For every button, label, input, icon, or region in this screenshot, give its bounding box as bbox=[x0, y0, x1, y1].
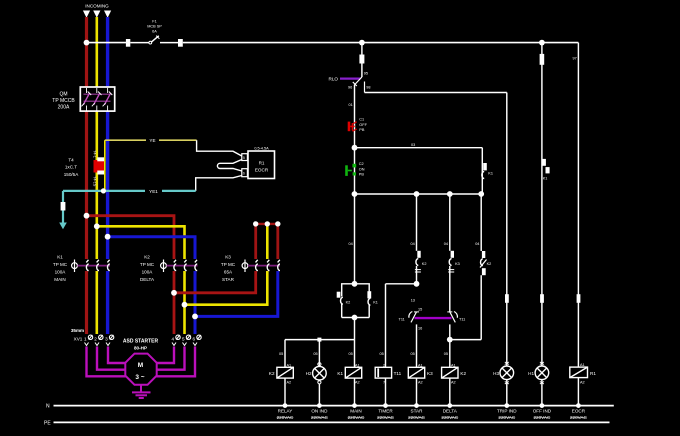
wire L3 blue lower bbox=[106, 271, 109, 334]
overload link RLO purple bbox=[340, 77, 361, 79]
node K2-K3 blue bbox=[192, 314, 198, 320]
node offind feed bbox=[539, 40, 545, 46]
wire aux to delta junction bbox=[450, 339, 481, 341]
node star 3 bbox=[275, 221, 280, 226]
wire relay-lamp feeder bus bbox=[285, 339, 355, 341]
node bus delta bbox=[447, 191, 453, 197]
svg-text:RLO: RLO bbox=[329, 77, 339, 82]
svg-text:6: 6 bbox=[243, 172, 245, 176]
svg-text:QM: QM bbox=[59, 92, 67, 98]
relay R1 EOCR box bbox=[242, 147, 275, 179]
svg-text:K2: K2 bbox=[269, 371, 275, 376]
wire L2 yellow mid bbox=[96, 111, 99, 259]
contactor K1 TP MC 100A MAIN label bbox=[53, 255, 68, 283]
wire CT secondary yellow vertical bbox=[104, 140, 106, 191]
svg-text:K3: K3 bbox=[455, 262, 460, 266]
svg-text:65A: 65A bbox=[224, 270, 233, 275]
wire down to fuse bbox=[361, 43, 363, 55]
wire red branch to K2 bbox=[87, 216, 175, 259]
svg-text:100A: 100A bbox=[142, 270, 154, 275]
contactor K1 pole 1 bbox=[86, 260, 88, 271]
contact K2 aux NC on aux column bbox=[480, 251, 491, 340]
incoming arrow L2 bbox=[93, 11, 100, 18]
wire L3 blue mid bbox=[106, 111, 109, 259]
wire bbox=[160, 42, 178, 44]
wire L1 red lower bbox=[85, 271, 88, 334]
wire star column down bbox=[416, 194, 418, 251]
node L3 branch bbox=[105, 234, 111, 240]
svg-text:A1: A1 bbox=[287, 363, 292, 367]
wire L2 yellow top bbox=[96, 17, 99, 87]
svg-text:RELAY: RELAY bbox=[278, 408, 293, 413]
wire K3 pole2 to K2 yellow bbox=[185, 271, 268, 305]
svg-text:220VAC: 220VAC bbox=[570, 415, 587, 420]
contactor K3 pole 3 bbox=[278, 260, 280, 271]
node offind N bbox=[540, 403, 545, 408]
svg-text:220VAC: 220VAC bbox=[311, 415, 328, 420]
svg-text:K1: K1 bbox=[373, 301, 378, 305]
svg-text:DELTA: DELTA bbox=[140, 277, 155, 282]
wire main column down bbox=[354, 194, 356, 284]
contact K1 NC offind bbox=[543, 159, 550, 181]
svg-text:STAR: STAR bbox=[222, 277, 235, 282]
motor wire 4 magenta bbox=[153, 347, 175, 364]
node onind N bbox=[317, 403, 322, 408]
svg-text:XV1: XV1 bbox=[74, 337, 83, 342]
wire K3 pole3 to K2 blue bbox=[195, 271, 278, 316]
fuse terminal bbox=[126, 39, 130, 47]
svg-text:97: 97 bbox=[573, 57, 577, 61]
timer link magenta bbox=[415, 317, 452, 319]
contact K2 aux on star column bbox=[415, 251, 427, 284]
svg-text:T4: T4 bbox=[68, 158, 74, 163]
svg-text:A1: A1 bbox=[580, 363, 585, 367]
svg-text:C1: C1 bbox=[359, 118, 364, 122]
wire aux column down bbox=[480, 194, 482, 251]
svg-text:T11: T11 bbox=[459, 318, 465, 322]
svg-text:16: 16 bbox=[418, 327, 422, 331]
svg-text:YE1: YE1 bbox=[149, 189, 158, 194]
breaker F1 MCB SP 6A bbox=[147, 20, 162, 44]
wire K3 pole1 to K2 red bbox=[174, 271, 256, 293]
svg-text:13: 13 bbox=[411, 299, 415, 303]
svg-text:150/5A: 150/5A bbox=[64, 172, 79, 177]
svg-text:H2: H2 bbox=[306, 371, 312, 376]
svg-text:M: M bbox=[138, 362, 143, 369]
svg-text:0.5-4.5A: 0.5-4.5A bbox=[254, 147, 269, 151]
node star 2 bbox=[265, 221, 270, 226]
node bus star bbox=[414, 191, 420, 197]
node bus aux bbox=[478, 191, 484, 197]
ground symbol motor bbox=[132, 392, 151, 398]
contactor K3 pole 2 bbox=[267, 260, 269, 271]
wire bbox=[130, 42, 149, 44]
wire white loop to EOCR bbox=[196, 140, 242, 191]
contactor K2 operator bbox=[161, 260, 167, 273]
svg-text:K3: K3 bbox=[225, 255, 231, 260]
svg-text:OFF IND: OFF IND bbox=[533, 408, 552, 413]
fuse terminal bbox=[178, 39, 183, 47]
node star 1 bbox=[253, 221, 258, 226]
svg-text:05: 05 bbox=[279, 352, 283, 356]
svg-text:N: N bbox=[46, 404, 50, 410]
wire trip branch horizontal bbox=[365, 92, 507, 94]
TERMINALS-AND-MOTOR bbox=[44, 328, 614, 426]
CT T4 1xC.T 150/5A bbox=[64, 150, 105, 187]
wire blue branch to K2 bbox=[108, 237, 195, 259]
svg-text:6: 6 bbox=[193, 337, 196, 342]
fuse eocr column bbox=[577, 294, 581, 303]
wire cyan earth drop bbox=[62, 191, 64, 224]
svg-text:PB: PB bbox=[359, 173, 365, 177]
wire offind column bbox=[541, 43, 543, 366]
terminal 1 bbox=[84, 335, 93, 346]
contact K1 seal-in bbox=[482, 148, 493, 194]
fuse control bbox=[359, 55, 364, 64]
lamp H2 ON IND bbox=[306, 363, 327, 406]
CONTACTORS bbox=[53, 221, 281, 334]
svg-text:A2: A2 bbox=[287, 381, 292, 385]
svg-text:35mm: 35mm bbox=[71, 328, 84, 333]
pushbutton C1 OFF PB bbox=[348, 118, 368, 148]
motor wire 1 magenta bbox=[87, 347, 129, 377]
svg-text:200A: 200A bbox=[58, 105, 70, 111]
wire K2 pole3 down bbox=[194, 271, 197, 334]
svg-text:6A: 6A bbox=[152, 30, 157, 34]
wire lamp H2 drop bbox=[318, 340, 320, 366]
wire main coil drop bbox=[354, 340, 356, 368]
svg-text:PE: PE bbox=[44, 420, 51, 426]
svg-text:96: 96 bbox=[348, 86, 352, 90]
contactor K1 operator bbox=[72, 260, 78, 273]
star bridge drop 3 red bbox=[276, 224, 279, 259]
contactor K3 TP MC 65A STAR label bbox=[221, 255, 236, 283]
node CT secondary junction bbox=[101, 188, 106, 193]
motor wire 2 magenta bbox=[97, 347, 127, 370]
svg-text:04: 04 bbox=[444, 242, 448, 246]
svg-text:K2: K2 bbox=[422, 262, 427, 266]
node main N bbox=[352, 403, 357, 408]
contactor K1 pole 2 bbox=[97, 260, 99, 271]
svg-text:5: 5 bbox=[243, 156, 245, 160]
svg-text:220VAC: 220VAC bbox=[377, 415, 394, 420]
svg-text:K2: K2 bbox=[144, 255, 150, 260]
svg-text:ASD STARTER: ASD STARTER bbox=[123, 339, 159, 345]
terminal 4 bbox=[172, 335, 181, 346]
node trip N bbox=[504, 403, 509, 408]
timer contact T11 delta column bbox=[447, 312, 465, 340]
node L2 branch bbox=[94, 223, 100, 229]
svg-text:K2: K2 bbox=[346, 301, 351, 305]
label YE bbox=[146, 137, 159, 143]
svg-text:T4-1: T4-1 bbox=[93, 150, 97, 158]
svg-text:H1: H1 bbox=[528, 371, 534, 376]
svg-text:K1: K1 bbox=[543, 177, 548, 181]
fuse link on earth wire bbox=[61, 202, 66, 211]
parallel contacts K2 K1 main column bbox=[337, 281, 378, 340]
node off-on junction bbox=[352, 145, 358, 151]
svg-text:K1: K1 bbox=[337, 371, 343, 376]
timer coil T11 bbox=[375, 363, 401, 405]
wire relay K2 drop bbox=[284, 340, 286, 368]
svg-text:K2: K2 bbox=[487, 262, 492, 266]
node lamp H2 tap bbox=[317, 338, 321, 342]
ground arrow cyan bbox=[59, 223, 67, 230]
lamp H1 OFF IND bbox=[528, 362, 549, 406]
svg-text:TP MC: TP MC bbox=[140, 262, 155, 267]
node L1 branch bbox=[84, 213, 90, 219]
node control tap on L1 bbox=[84, 40, 90, 46]
svg-text:K3: K3 bbox=[427, 371, 433, 376]
terminal 3 bbox=[105, 335, 114, 346]
svg-text:3 ~: 3 ~ bbox=[135, 374, 144, 381]
node star N bbox=[414, 403, 419, 408]
contactor K3 operator bbox=[242, 260, 248, 273]
svg-text:220VAC: 220VAC bbox=[498, 415, 515, 420]
node K2-K3 red bbox=[171, 290, 177, 296]
fuse offind top bbox=[540, 54, 545, 65]
wire delta coil drop bbox=[449, 340, 451, 368]
svg-text:A1: A1 bbox=[355, 363, 360, 367]
svg-text:YE: YE bbox=[149, 138, 155, 143]
svg-text:INCOMING: INCOMING bbox=[85, 4, 109, 9]
svg-text:2: 2 bbox=[383, 363, 385, 367]
svg-text:100A: 100A bbox=[55, 270, 67, 275]
svg-text:ON: ON bbox=[359, 167, 365, 171]
wire fuse to OL contact bbox=[361, 64, 363, 78]
svg-text:MAIN: MAIN bbox=[54, 277, 65, 282]
node star junction bbox=[414, 281, 420, 287]
contactor K2 TP MC 100A DELTA label bbox=[140, 255, 155, 283]
svg-text:A1: A1 bbox=[451, 363, 456, 367]
wire yellow branch to K2 bbox=[97, 226, 185, 259]
svg-text:05: 05 bbox=[313, 352, 317, 356]
incoming arrow L1 bbox=[83, 11, 90, 18]
svg-text:04: 04 bbox=[475, 242, 479, 246]
node control feed bbox=[359, 40, 365, 46]
motor wire 6 magenta bbox=[155, 347, 196, 377]
contactor K2 pole 2 bbox=[184, 260, 186, 271]
wire eocr column bbox=[577, 43, 579, 368]
svg-text:TIMER: TIMER bbox=[378, 408, 393, 413]
lamp H3 TRIP IND bbox=[493, 362, 513, 406]
svg-text:EOCR: EOCR bbox=[572, 408, 586, 413]
CONTROL-SECTION bbox=[279, 40, 580, 368]
svg-text:ON IND: ON IND bbox=[311, 408, 328, 413]
svg-text:TP MC: TP MC bbox=[53, 262, 68, 267]
coil R1 EOCR bbox=[570, 363, 597, 406]
node eocr N bbox=[576, 403, 581, 408]
motor wire 5 magenta bbox=[156, 347, 185, 370]
contactor K3 link bbox=[248, 265, 280, 267]
fuse offind column bbox=[540, 294, 544, 303]
svg-text:F1: F1 bbox=[152, 20, 156, 24]
wire K2 pole1 down bbox=[173, 271, 176, 334]
terminal 6 bbox=[193, 335, 202, 346]
svg-text:220VAC: 220VAC bbox=[534, 415, 551, 420]
star bridge wire bbox=[256, 223, 278, 225]
wire K2 pole2 down bbox=[183, 271, 186, 334]
wire seal branch horizontal bbox=[355, 147, 483, 149]
MCCB QM TP MCCB 200A bbox=[52, 87, 114, 111]
overload relay contact 95-96-98 bbox=[353, 77, 365, 93]
coil K1 MAIN bbox=[337, 363, 361, 405]
svg-text:98: 98 bbox=[366, 86, 370, 90]
svg-text:TRIP IND: TRIP IND bbox=[497, 408, 517, 413]
svg-text:TP MCCB: TP MCCB bbox=[52, 98, 75, 104]
svg-text:A2: A2 bbox=[580, 380, 585, 384]
svg-text:A2: A2 bbox=[355, 381, 360, 385]
incoming arrow L3 bbox=[104, 11, 111, 18]
svg-text:K2: K2 bbox=[460, 371, 466, 376]
wire delta column down bbox=[449, 194, 451, 251]
wire control bus bbox=[355, 193, 482, 195]
svg-text:05: 05 bbox=[380, 352, 384, 356]
svg-text:5: 5 bbox=[182, 337, 185, 342]
label YE1 bbox=[145, 188, 162, 195]
wire L1 red top bbox=[85, 17, 88, 87]
svg-text:220VAC: 220VAC bbox=[277, 415, 294, 420]
contactor K2 pole 3 bbox=[195, 260, 197, 271]
svg-text:K1: K1 bbox=[488, 172, 493, 176]
svg-text:A2: A2 bbox=[418, 381, 423, 385]
wire CT secondary yellow horizontal YE bbox=[105, 139, 197, 141]
svg-text:05: 05 bbox=[444, 352, 448, 356]
terminal 5 bbox=[182, 335, 191, 346]
svg-text:4: 4 bbox=[172, 337, 175, 342]
svg-text:MAIN: MAIN bbox=[350, 408, 361, 413]
svg-text:STAR: STAR bbox=[411, 408, 424, 413]
timer contact T11 star column bbox=[399, 308, 423, 368]
wire cyan YE1 return bbox=[63, 190, 196, 192]
svg-text:05: 05 bbox=[411, 352, 415, 356]
wire control top bus bbox=[183, 42, 579, 44]
wire trip column bbox=[506, 93, 508, 367]
svg-text:04: 04 bbox=[349, 242, 353, 246]
svg-text:PB: PB bbox=[359, 128, 365, 132]
motor M 3-phase bbox=[125, 354, 156, 385]
svg-text:220VAC: 220VAC bbox=[408, 415, 425, 420]
node delta coil junction bbox=[447, 337, 453, 343]
wire L2 yellow lower bbox=[96, 271, 99, 334]
svg-text:H3: H3 bbox=[493, 371, 499, 376]
svg-text:04: 04 bbox=[411, 242, 415, 246]
fuse trip column bbox=[505, 294, 509, 303]
svg-text:T4-1S: T4-1S bbox=[93, 176, 97, 187]
contact K3 aux on delta column bbox=[448, 251, 460, 312]
wire L3 blue top bbox=[106, 17, 109, 87]
terminal 2 bbox=[94, 335, 103, 346]
svg-text:95: 95 bbox=[364, 72, 368, 76]
node relay N bbox=[283, 403, 288, 408]
POWER-SECTION bbox=[52, 4, 578, 335]
wire control feed bbox=[87, 42, 127, 44]
svg-text:05: 05 bbox=[349, 352, 353, 356]
svg-text:K1: K1 bbox=[57, 255, 63, 260]
svg-text:MCB SP: MCB SP bbox=[147, 25, 162, 29]
star bridge drop 1 red bbox=[254, 224, 257, 259]
svg-text:1: 1 bbox=[84, 337, 87, 342]
svg-text:EOCR: EOCR bbox=[255, 168, 269, 173]
svg-text:C2: C2 bbox=[359, 162, 364, 166]
svg-text:T11: T11 bbox=[399, 318, 405, 322]
svg-text:R1: R1 bbox=[259, 161, 265, 166]
wire timer column down bbox=[385, 284, 387, 368]
BOTTOM-ROW bbox=[269, 362, 596, 420]
contactor K3 pole 1 bbox=[256, 260, 258, 271]
svg-text:2: 2 bbox=[94, 337, 97, 342]
svg-text:A1: A1 bbox=[418, 363, 423, 367]
svg-text:OFF: OFF bbox=[359, 123, 367, 127]
relay coil K2 bbox=[269, 363, 293, 405]
svg-text:T11: T11 bbox=[394, 371, 402, 376]
svg-text:220VAC: 220VAC bbox=[348, 415, 365, 420]
node delta N bbox=[447, 403, 452, 408]
motor wire 3 magenta bbox=[108, 347, 130, 364]
svg-text:15: 15 bbox=[418, 308, 422, 312]
node bus main bbox=[352, 191, 358, 197]
svg-text:DELTA: DELTA bbox=[443, 408, 458, 413]
wire L1 red mid bbox=[85, 111, 88, 259]
contactor K1 pole 3 bbox=[107, 260, 109, 271]
svg-text:1xC.T: 1xC.T bbox=[65, 165, 77, 170]
svg-text:A2: A2 bbox=[451, 381, 456, 385]
pushbutton C2 ON PB bbox=[345, 148, 365, 194]
contactor K2 pole 1 bbox=[174, 260, 176, 271]
contactor K1 link bbox=[78, 265, 111, 267]
coil K2 DELTA bbox=[442, 363, 467, 405]
svg-text:3: 3 bbox=[105, 337, 108, 342]
node K2-K3 yellow bbox=[182, 302, 188, 308]
svg-text:03: 03 bbox=[411, 143, 415, 147]
motor ground stem bbox=[140, 385, 142, 392]
node timer N bbox=[383, 403, 388, 408]
svg-text:R1: R1 bbox=[590, 371, 596, 376]
wire main control vertical upper bbox=[354, 85, 356, 123]
star bridge drop 2 yellow bbox=[266, 224, 269, 259]
contactor K2 link bbox=[167, 265, 198, 267]
svg-text:TP MC: TP MC bbox=[221, 262, 236, 267]
wire timer feed horizontal bbox=[386, 283, 417, 285]
svg-text:220VAC: 220VAC bbox=[441, 415, 458, 420]
svg-text:01: 01 bbox=[349, 103, 353, 107]
coil K3 STAR bbox=[408, 363, 433, 405]
svg-text:80-HP: 80-HP bbox=[134, 346, 147, 351]
